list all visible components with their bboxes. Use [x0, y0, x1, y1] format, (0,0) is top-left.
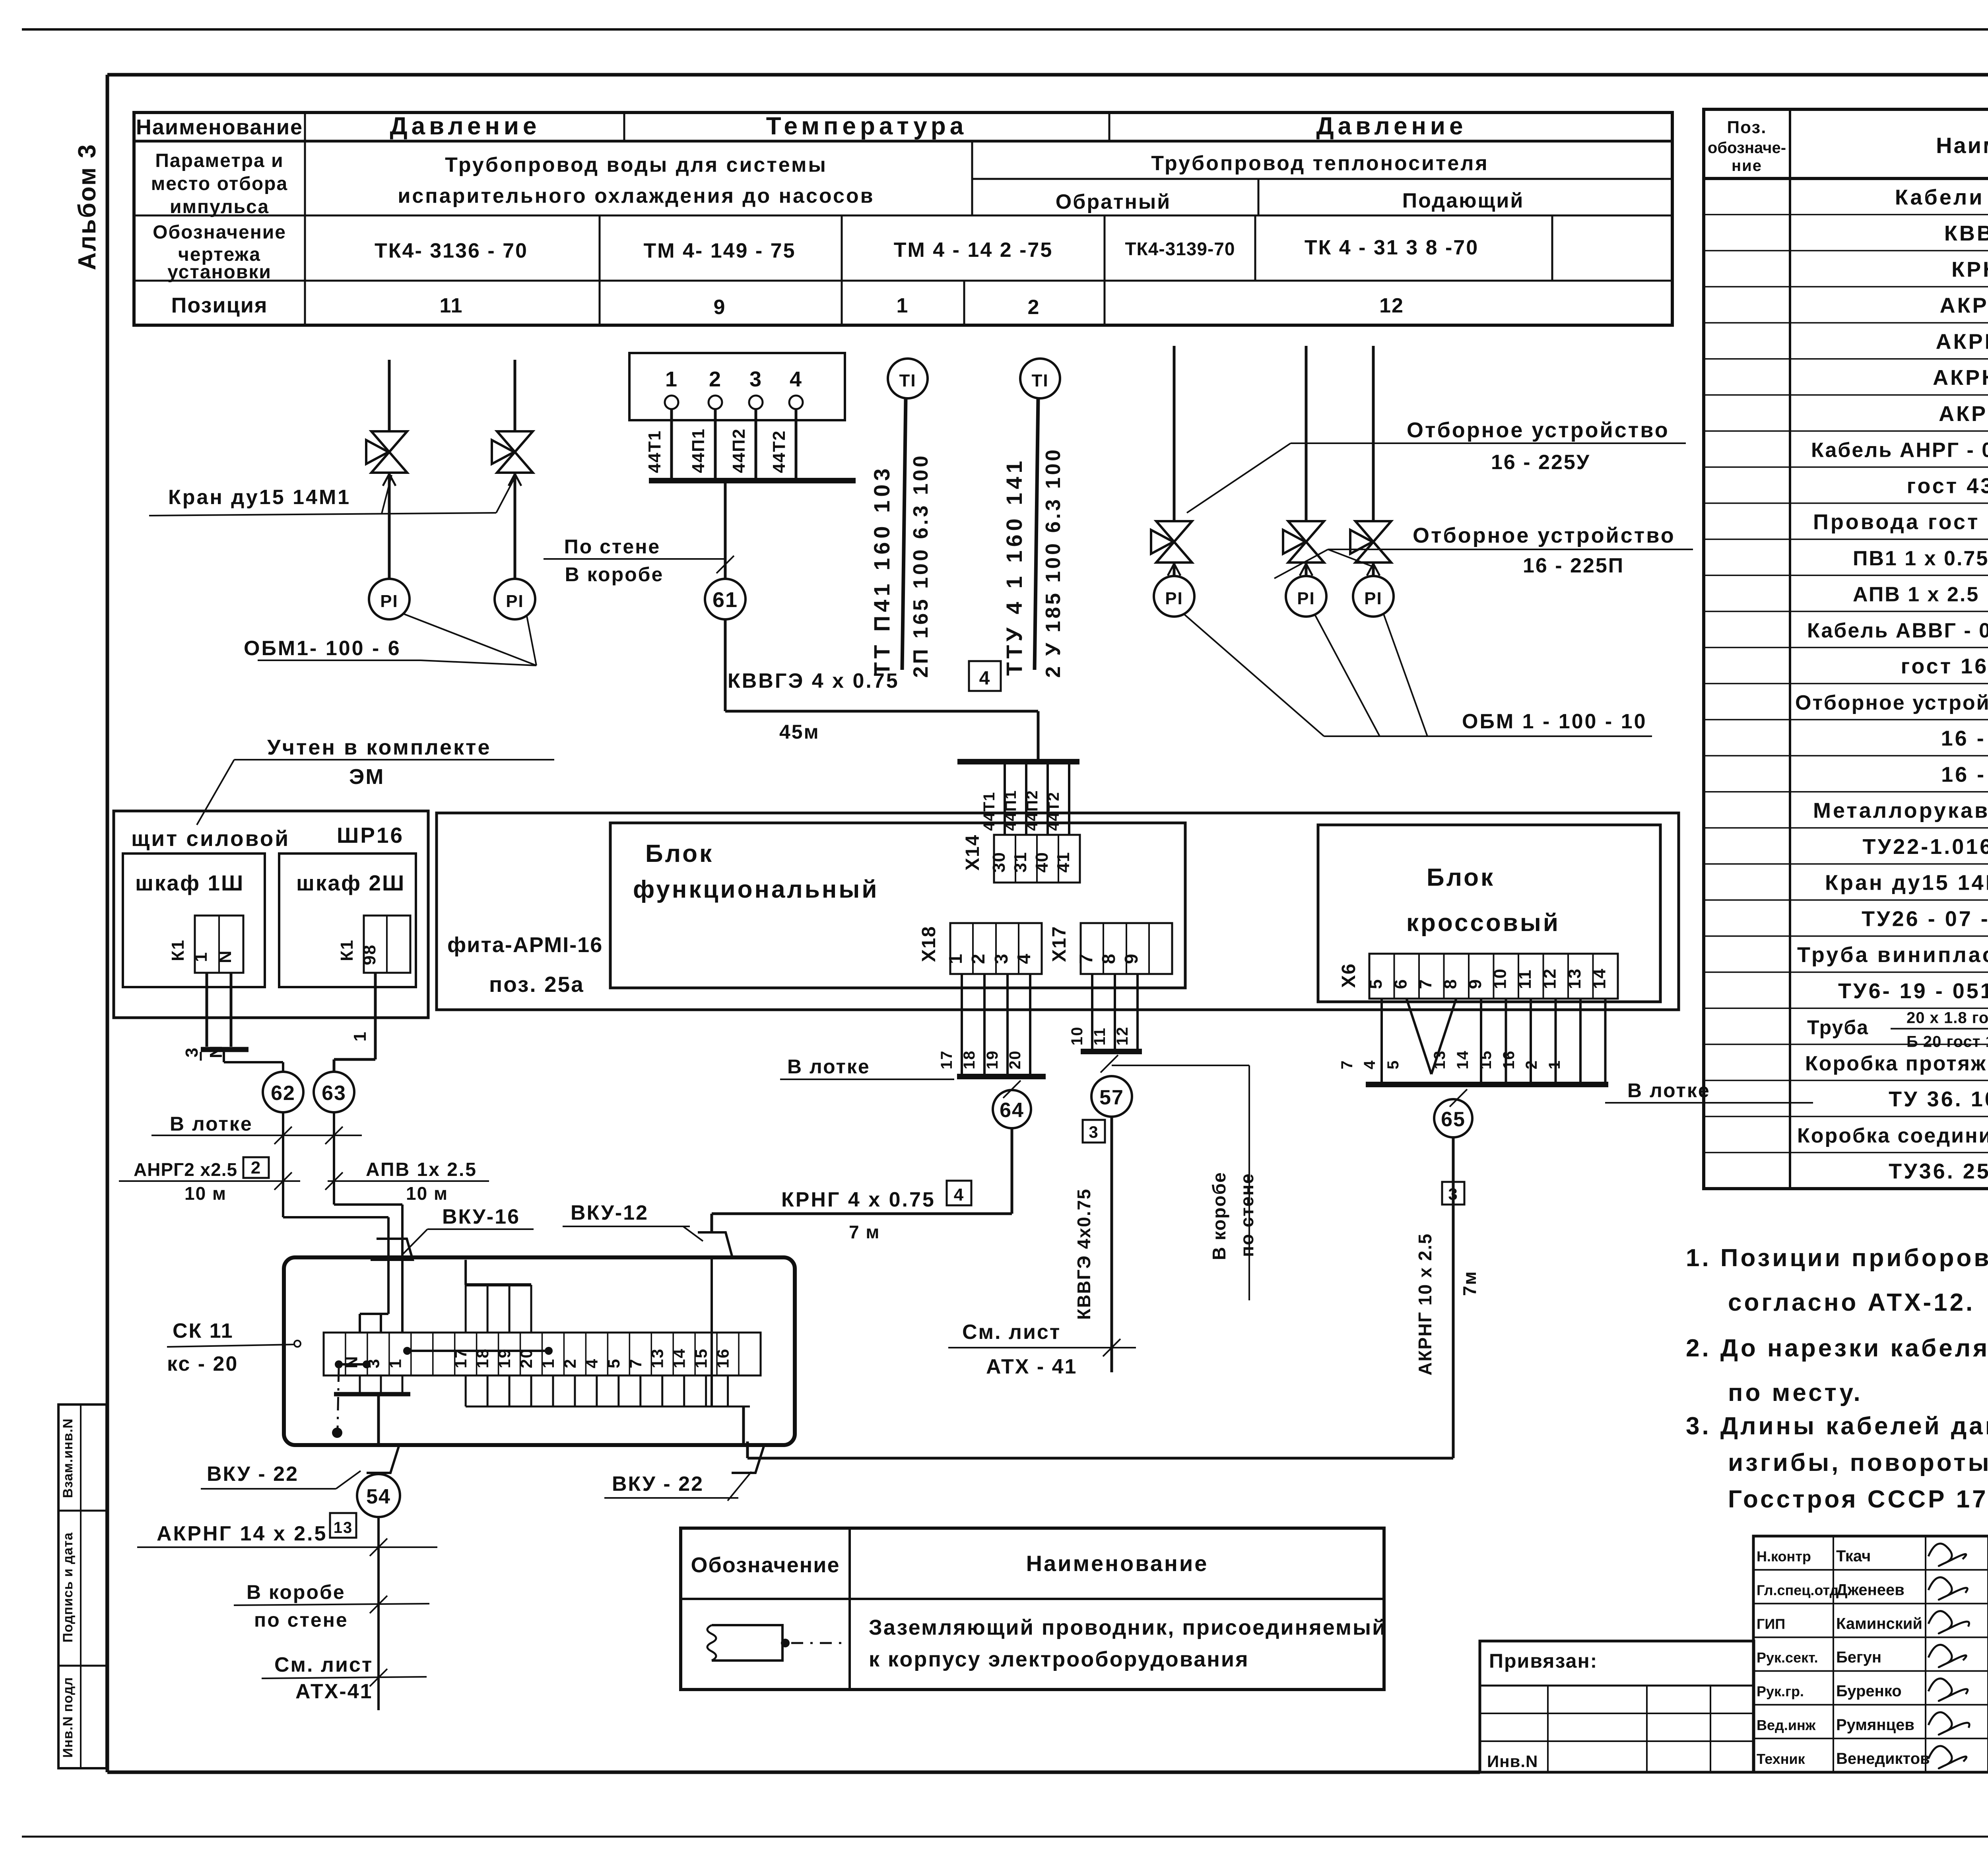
svg-text:2: 2 [251, 1158, 261, 1178]
svg-text:2: 2 [561, 1358, 579, 1368]
svg-text:гост 16442 - 80: гост 16442 - 80 [1901, 654, 1988, 678]
svg-text:64: 64 [1000, 1099, 1024, 1122]
svg-text:44Т2: 44Т2 [1045, 791, 1062, 831]
svg-text:3: 3 [182, 1047, 202, 1057]
svg-text:8: 8 [1441, 979, 1460, 989]
svg-text:В лотке: В лотке [170, 1113, 253, 1135]
svg-text:ПВ1 1 х 0.7: ПВ1 1 х 0.75 [1853, 547, 1988, 570]
svg-text:по стене: по стене [1237, 1173, 1257, 1257]
svg-text:62: 62 [271, 1082, 295, 1105]
svg-text:Х6: Х6 [1338, 963, 1359, 988]
svg-text:10: 10 [1491, 968, 1510, 989]
svg-text:44П2: 44П2 [1023, 790, 1041, 831]
svg-text:10 м: 10 м [184, 1183, 227, 1204]
svg-text:1: 1 [191, 952, 211, 962]
svg-text:4: 4 [1013, 953, 1034, 964]
svg-text:9: 9 [714, 296, 726, 319]
svg-text:по стене: по стене [254, 1609, 348, 1631]
svg-text:11: 11 [440, 294, 463, 317]
svg-text:Обратный: Обратный [1056, 190, 1171, 213]
svg-text:Позиция: Позиция [171, 293, 268, 317]
svg-text:15: 15 [1477, 1050, 1495, 1070]
svg-text:Румянцев: Румянцев [1836, 1716, 1914, 1734]
svg-text:61: 61 [712, 588, 738, 612]
svg-text:АКРНГ 14 х 2.5: АКРНГ 14 х 2.5 [157, 1522, 327, 1545]
svg-text:ТК 4 - 31 3 8 -70: ТК 4 - 31 3 8 -70 [1305, 236, 1479, 259]
svg-text:1: 1 [539, 1358, 557, 1368]
svg-text:Кабель АВВГ - 0.66 3 х: Кабель АВВГ - 0.66 3 х 2.5 [1807, 619, 1988, 642]
svg-text:КРНГ 4 х 0.75: КРНГ 4 х 0.75 [781, 1188, 936, 1211]
svg-text:АКРНГ 7 х 2.5: АКРНГ 7 х 2.5 [1936, 330, 1988, 353]
svg-text:К1: К1 [168, 939, 188, 961]
svg-text:5: 5 [1366, 979, 1386, 989]
svg-text:ТК4- 3136 - 70: ТК4- 3136 - 70 [375, 239, 528, 262]
svg-text:поз. 25а: поз. 25а [489, 972, 584, 997]
svg-text:7: 7 [626, 1358, 645, 1368]
svg-text:См. лист: См. лист [274, 1653, 373, 1676]
svg-text:ТМ 4 - 14 2 -75: ТМ 4 - 14 2 -75 [894, 239, 1053, 262]
svg-text:12: 12 [1379, 294, 1404, 317]
svg-text:13: 13 [648, 1348, 667, 1368]
svg-text:11: 11 [1091, 1027, 1109, 1046]
svg-text:Н.контр: Н.контр [1757, 1548, 1811, 1565]
svg-text:13: 13 [1565, 968, 1584, 989]
svg-text:TI: TI [1031, 371, 1048, 390]
svg-text:14: 14 [1454, 1050, 1472, 1070]
svg-text:Наименование: Наименование [1936, 133, 1988, 158]
svg-text:3: 3 [1448, 1185, 1458, 1203]
svg-text:АКРНГ 4 х 2.5: АКРНГ 4 х 2.5 [1940, 294, 1988, 318]
svg-text:1: 1 [665, 367, 678, 391]
svg-text:установки: установки [167, 262, 272, 283]
svg-text:7 м: 7 м [849, 1222, 880, 1242]
svg-text:См. лист: См. лист [962, 1321, 1061, 1344]
svg-text:7: 7 [1076, 953, 1096, 964]
svg-text:Обозначение: Обозначение [153, 222, 286, 243]
svg-text:По стене: По стене [564, 535, 660, 558]
svg-text:Буренко: Буренко [1836, 1682, 1902, 1700]
svg-text:испарительного охлаждения до: испарительного охлаждения до насосов [398, 184, 874, 208]
svg-text:Наименование: Наименование [1026, 1551, 1209, 1576]
svg-text:Ткач: Ткач [1836, 1548, 1871, 1565]
svg-text:ВКУ-16: ВКУ-16 [442, 1205, 520, 1228]
svg-text:по месту.: по месту. [1728, 1379, 1863, 1406]
svg-text:Отборное устройство: Отборное устройство [1413, 524, 1675, 547]
svg-text:2: 2 [1523, 1060, 1540, 1069]
svg-text:Х17: Х17 [1049, 926, 1070, 962]
svg-text:1: 1 [897, 294, 909, 317]
svg-text:Рук.сект.: Рук.сект. [1757, 1649, 1818, 1666]
svg-text:44Т1: 44Т1 [645, 430, 664, 473]
svg-text:12: 12 [1540, 968, 1560, 989]
svg-text:Инв.N: Инв.N [1487, 1752, 1538, 1771]
svg-text:ТК4-3139-70: ТК4-3139-70 [1125, 239, 1235, 259]
svg-text:3. Длины кабелей даны с: 3. Длины кабелей даны с учетом 6% надбав… [1686, 1412, 1988, 1440]
svg-text:к корпусу электрооборудова: к корпусу электрооборудования [869, 1647, 1249, 1671]
svg-text:N: N [342, 1356, 361, 1368]
svg-text:PI: PI [1364, 589, 1382, 608]
svg-text:2: 2 [968, 953, 988, 964]
svg-text:ВКУ - 22: ВКУ - 22 [207, 1463, 299, 1486]
svg-text:8: 8 [1098, 953, 1119, 964]
svg-text:7: 7 [1416, 979, 1435, 989]
svg-text:54: 54 [366, 1485, 391, 1508]
svg-text:место отбора: место отбора [151, 173, 288, 194]
svg-text:ТУ6- 19 - 051 - 249 -79: ТУ6- 19 - 051 - 249 -79 [1838, 979, 1988, 1003]
svg-text:импульса: импульса [170, 196, 269, 217]
svg-text:2: 2 [1028, 296, 1040, 319]
svg-text:Поз.: Поз. [1727, 118, 1767, 137]
svg-text:Температура: Температура [766, 113, 968, 140]
svg-text:АТХ - 41: АТХ - 41 [986, 1355, 1077, 1378]
svg-text:ГИП: ГИП [1757, 1616, 1785, 1632]
svg-text:изгибы, повороты и отходы: изгибы, повороты и отходы согласно письм… [1728, 1449, 1988, 1476]
svg-text:17: 17 [938, 1050, 955, 1070]
svg-text:Обозначение: Обозначение [691, 1553, 840, 1577]
svg-text:1: 1 [1546, 1060, 1563, 1069]
svg-text:9: 9 [1121, 953, 1142, 964]
svg-text:40: 40 [1032, 852, 1052, 873]
svg-text:Давление: Давление [390, 113, 540, 140]
svg-text:Отборное устройство: Отборное устройство [1407, 418, 1670, 442]
svg-text:Кран ду15 14М1: Кран ду15 14М1 [168, 486, 351, 509]
svg-text:13: 13 [334, 1519, 353, 1536]
svg-text:Коробка протяжная ПК200 х 9: Коробка протяжная ПК200 х 90 [1805, 1052, 1988, 1075]
svg-text:Параметра и: Параметра и [155, 150, 283, 171]
svg-text:ОБМ1- 100 - 6: ОБМ1- 100 - 6 [244, 637, 401, 660]
svg-text:Техник: Техник [1757, 1751, 1806, 1767]
svg-text:PI: PI [506, 592, 524, 611]
svg-text:10: 10 [1068, 1026, 1086, 1046]
svg-text:Учтен в комплекте: Учтен в комплекте [267, 735, 491, 759]
svg-text:шкаф 2Ш: шкаф 2Ш [296, 871, 405, 895]
svg-text:фита-АРМI-16: фита-АРМI-16 [447, 933, 603, 957]
svg-text:65: 65 [1441, 1108, 1466, 1131]
svg-text:Х18: Х18 [918, 926, 940, 962]
svg-text:ТУ22-1.016 - 231- 86: ТУ22-1.016 - 231- 86 [1863, 835, 1988, 859]
svg-text:КРНГ 4 х 0.75: КРНГ 4 х 0.75 [1951, 258, 1988, 281]
svg-text:Альбом 3: Альбом 3 [74, 143, 101, 270]
svg-text:Провода гост 6323 - 79: Провода гост 6323 - 79 [1813, 510, 1988, 534]
svg-text:Бегун: Бегун [1836, 1649, 1881, 1666]
svg-text:Блок: Блок [645, 840, 714, 867]
svg-text:Кабель АНРГ - 0.66 2 х: Кабель АНРГ - 0.66 2 х 2.5 [1811, 439, 1988, 462]
svg-text:7м: 7м [1459, 1271, 1480, 1296]
svg-text:98: 98 [360, 944, 379, 965]
svg-text:Подающий: Подающий [1402, 189, 1524, 212]
svg-text:2 У 185 100 6.3 100: 2 У 185 100 6.3 100 [1042, 447, 1065, 678]
svg-text:В коробе: В коробе [1209, 1172, 1229, 1260]
svg-text:Гл.спец.отд: Гл.спец.отд [1757, 1582, 1839, 1598]
svg-text:N: N [215, 950, 235, 963]
svg-text:кс - 20: кс - 20 [167, 1352, 238, 1375]
svg-text:ЭМ: ЭМ [349, 765, 384, 789]
svg-text:20 х 1.8 гост 10704 -76: 20 х 1.8 гост 10704 -76 [1906, 1009, 1988, 1027]
svg-text:44П1: 44П1 [1002, 790, 1019, 831]
svg-text:5: 5 [604, 1358, 623, 1368]
svg-text:1: 1 [386, 1358, 404, 1368]
svg-text:ТУ36. 2568 - 83: ТУ36. 2568 - 83 [1889, 1160, 1988, 1183]
svg-text:3: 3 [991, 953, 1011, 964]
svg-text:5: 5 [1384, 1060, 1402, 1069]
svg-text:ТТ П41 160 103: ТТ П41 160 103 [869, 465, 894, 676]
svg-text:3: 3 [749, 367, 762, 391]
svg-text:1. Позиции приборов и аппа: 1. Позиции приборов и аппаратуры указаны [1686, 1244, 1988, 1272]
svg-text:Б 20 гост 10705 - 8: Б 20 гост 10705 - 80 [1906, 1033, 1988, 1051]
svg-text:Трубопровод теплоносителя: Трубопровод теплоносителя [1151, 152, 1489, 175]
svg-text:КВВГЭ 4х0.75: КВВГЭ 4х0.75 [1074, 1188, 1094, 1320]
svg-text:Инв.N подл: Инв.N подл [60, 1677, 76, 1758]
svg-text:3: 3 [1089, 1123, 1099, 1141]
svg-text:10 м: 10 м [406, 1183, 448, 1204]
svg-text:Подпись и дата: Подпись и дата [60, 1532, 76, 1643]
svg-text:16 - 225У: 16 - 225У [1491, 451, 1590, 474]
svg-text:14: 14 [670, 1348, 689, 1368]
svg-text:ТУ26 - 07 - 1061 - 84: ТУ26 - 07 - 1061 - 84 [1862, 907, 1988, 931]
svg-text:АКРНГ 10 х 2.5: АКРНГ 10 х 2.5 [1933, 366, 1988, 390]
svg-text:К1: К1 [337, 939, 357, 961]
svg-text:16 - 225п: 16 - 225п [1941, 762, 1988, 786]
svg-text:6: 6 [1391, 979, 1411, 989]
svg-text:кроссовый: кроссовый [1406, 909, 1560, 937]
svg-text:функциональный: функциональный [633, 876, 879, 903]
svg-text:ТТУ 4 1 160 141: ТТУ 4 1 160 141 [1002, 457, 1027, 676]
svg-text:КВВГЭ 4 х 0.75: КВВГЭ 4 х 0.75 [1944, 221, 1988, 245]
svg-text:Блок: Блок [1427, 864, 1495, 891]
svg-text:Рук.гр.: Рук.гр. [1757, 1683, 1804, 1699]
svg-text:41: 41 [1054, 852, 1073, 873]
svg-text:Каминский: Каминский [1836, 1615, 1922, 1632]
svg-text:АПВ 1х 2.5: АПВ 1х 2.5 [366, 1159, 477, 1180]
svg-text:АТХ-41: АТХ-41 [295, 1680, 373, 1703]
svg-text:TI: TI [899, 371, 916, 390]
svg-text:20: 20 [1006, 1050, 1024, 1070]
svg-text:Заземляющий проводник, прис: Заземляющий проводник, присоединяемый [869, 1616, 1386, 1639]
svg-text:Наименование: Наименование [136, 115, 303, 139]
svg-text:4: 4 [954, 1185, 964, 1205]
svg-text:АКРНГ 14 х 2.5: АКРНГ 14 х 2.5 [1939, 402, 1988, 426]
svg-text:ние: ние [1732, 157, 1762, 175]
svg-text:Трубопровод воды для систем: Трубопровод воды для системы [445, 153, 827, 177]
svg-text:АКРНГ 10 х 2.5: АКРНГ 10 х 2.5 [1415, 1233, 1435, 1375]
svg-text:ОБМ 1 - 100 - 10: ОБМ 1 - 100 - 10 [1462, 710, 1647, 733]
svg-text:45м: 45м [779, 721, 820, 743]
svg-text:PI: PI [1165, 589, 1183, 608]
svg-text:12: 12 [1114, 1026, 1131, 1046]
svg-text:В лотке: В лотке [787, 1055, 870, 1078]
svg-text:16 - 225П: 16 - 225П [1523, 554, 1624, 577]
svg-text:Вед.инж: Вед.инж [1757, 1717, 1816, 1733]
svg-text:Привязан:: Привязан: [1489, 1650, 1598, 1672]
svg-text:31: 31 [1011, 852, 1030, 873]
svg-text:В лотке: В лотке [1627, 1079, 1710, 1102]
svg-text:2. До нарезки кабеля длин: 2. До нарезки кабеля длины трасс уточнит… [1686, 1335, 1988, 1362]
svg-text:PI: PI [380, 592, 398, 611]
svg-text:В коробе: В коробе [247, 1581, 346, 1603]
svg-text:Кабели гост 1508-78: Кабели гост 1508-78 [1895, 185, 1988, 209]
svg-text:18: 18 [961, 1050, 978, 1070]
svg-text:2П 165 100 6.3 100: 2П 165 100 6.3 100 [909, 453, 932, 678]
svg-text:согласно АТХ-12.: согласно АТХ-12. [1728, 1289, 1975, 1316]
svg-text:Кран ду15 14М1: Кран ду15 14М1 [1825, 871, 1988, 895]
svg-text:44П1: 44П1 [689, 428, 708, 473]
svg-text:СК 11: СК 11 [173, 1319, 234, 1342]
svg-text:44П2: 44П2 [729, 428, 749, 473]
svg-text:19: 19 [984, 1050, 1001, 1070]
svg-text:АПВ 1 х 2.5: АПВ 1 х 2.5 [1853, 583, 1979, 606]
svg-text:Госстроя СССР 17.12.1979 г: Госстроя СССР 17.12.1979 г № 89Д. [1728, 1486, 1988, 1513]
svg-text:ВКУ - 22: ВКУ - 22 [612, 1472, 704, 1496]
svg-text:Труба: Труба [1807, 1017, 1869, 1039]
svg-text:4: 4 [582, 1358, 601, 1368]
svg-text:щит силовой: щит силовой [131, 826, 290, 851]
svg-text:16 - 225У: 16 - 225У [1941, 727, 1988, 751]
svg-text:4: 4 [1361, 1060, 1378, 1069]
svg-text:Х14: Х14 [962, 834, 983, 871]
svg-text:Коробка соединительная КС-2: Коробка соединительная КС-20 [1797, 1124, 1988, 1147]
svg-text:гост 433 - 73: гост 433 - 73 [1907, 474, 1988, 498]
svg-text:Давление: Давление [1316, 113, 1467, 140]
svg-text:16: 16 [714, 1348, 732, 1368]
svg-text:44Т1: 44Т1 [980, 791, 998, 831]
svg-text:63: 63 [322, 1082, 346, 1105]
svg-text:Металлорукав Р3-Ц-Х-12: Металлорукав Р3-Ц-Х-12 [1813, 799, 1988, 823]
svg-text:44Т2: 44Т2 [769, 430, 789, 473]
svg-text:1: 1 [350, 1031, 370, 1042]
svg-text:ТМ 4- 149 - 75: ТМ 4- 149 - 75 [643, 239, 796, 262]
svg-text:обозначе-: обозначе- [1708, 139, 1786, 157]
svg-text:ШР16: ШР16 [337, 823, 404, 848]
svg-text:Труба винипластовая 20х1.5: Труба винипластовая 20х1.5 [1797, 943, 1988, 967]
svg-text:В коробе: В коробе [565, 563, 664, 586]
svg-text:PI: PI [1297, 589, 1315, 608]
svg-text:Дженеев: Дженеев [1836, 1581, 1905, 1599]
svg-text:Венедиктов: Венедиктов [1836, 1750, 1930, 1767]
svg-text:Взам.инв.N: Взам.инв.N [60, 1418, 76, 1498]
svg-text:9: 9 [1466, 979, 1485, 989]
svg-text:Отборное устройство ТУ36.1258: Отборное устройство ТУ36.1258 - 85 [1795, 691, 1988, 714]
svg-text:4: 4 [979, 668, 991, 689]
svg-text:16: 16 [1500, 1050, 1518, 1070]
svg-text:13: 13 [1431, 1050, 1448, 1070]
svg-text:АНРГ2 х2.5: АНРГ2 х2.5 [134, 1159, 237, 1180]
svg-text:14: 14 [1590, 968, 1609, 989]
svg-text:15: 15 [692, 1348, 711, 1368]
svg-text:57: 57 [1099, 1086, 1124, 1109]
svg-text:7: 7 [1338, 1060, 1356, 1069]
svg-text:30: 30 [989, 852, 1009, 873]
svg-text:4: 4 [790, 367, 802, 391]
svg-text:11: 11 [1515, 969, 1535, 989]
svg-text:1: 1 [945, 953, 966, 964]
svg-text:2: 2 [709, 367, 722, 391]
svg-text:шкаф 1Ш: шкаф 1Ш [135, 871, 244, 895]
svg-text:ТУ 36. 1070 - 85: ТУ 36. 1070 - 85 [1889, 1087, 1988, 1111]
svg-text:ВКУ-12: ВКУ-12 [571, 1201, 648, 1224]
